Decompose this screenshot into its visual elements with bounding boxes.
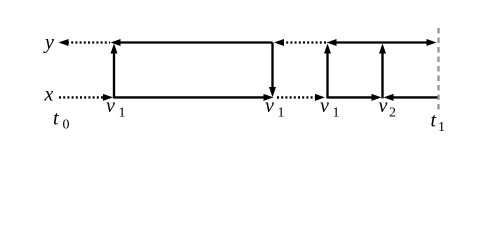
svg-text:v: v: [320, 95, 329, 117]
arrowhead left on y-line at second v1 corner: [274, 39, 284, 46]
label v1 second: [265, 95, 285, 121]
arrowhead right on x-line at third v1: [315, 94, 325, 101]
solid wire y-line v1 to v1: [119, 41, 273, 43]
dashed gray line at t1: [437, 28, 439, 111]
svg-text:1: 1: [438, 120, 445, 135]
arrowhead right on x-line at first v1: [103, 94, 113, 101]
vertical wire first v1 up: [113, 52, 115, 98]
svg-text:1: 1: [278, 106, 285, 121]
arrowhead left on y-line toward y label: [59, 39, 69, 46]
label v2: [379, 95, 397, 121]
arrowhead left on x-line at v2 from t1: [384, 94, 394, 101]
label v1 first: [106, 95, 126, 121]
svg-text:2: 2: [389, 106, 396, 121]
dotted wire x-line middle: [277, 96, 316, 98]
arrowhead up at v2: [379, 44, 386, 54]
arrowhead right on x-line at v2: [372, 94, 382, 101]
svg-text:y: y: [43, 32, 54, 54]
svg-text:v: v: [265, 95, 274, 117]
svg-text:1: 1: [119, 106, 126, 121]
arrowhead up at third v1: [324, 44, 331, 54]
svg-text:v: v: [106, 95, 115, 117]
svg-text:t: t: [53, 108, 59, 130]
vertical wire v2 up: [381, 53, 383, 98]
svg-text:0: 0: [63, 118, 70, 133]
arrowhead right on x-line at second v1: [264, 94, 274, 101]
svg-text:t: t: [431, 110, 437, 132]
arrowhead left on y-line at third v1: [327, 39, 337, 46]
label t0: [53, 108, 70, 133]
dotted wire x-line t0 to v1: [59, 96, 104, 98]
svg-text:1: 1: [333, 106, 340, 121]
solid wire x-line v1 to v2: [328, 96, 374, 98]
arrowhead left on y-line at first v1: [111, 39, 121, 46]
label t1: [431, 110, 446, 136]
svg-text:v: v: [379, 95, 388, 117]
dotted wire y-line middle: [282, 41, 327, 43]
solid wire x-line v1 to v1: [114, 96, 265, 98]
solid wire x-line v2 to t1: [392, 96, 438, 98]
label v1 third: [320, 95, 340, 121]
vertical wire second v1 down: [271, 43, 273, 89]
arrowhead up at first v1: [111, 44, 118, 54]
solid wire y-line v1 to t1: [335, 41, 428, 43]
arrowhead down at second v1: [269, 87, 276, 97]
dotted wire y-line t0 to v1: [67, 41, 110, 43]
arrowhead right on y-line at t1: [427, 39, 437, 46]
svg-text:x: x: [44, 84, 54, 106]
vertical wire third v1 up: [326, 53, 328, 98]
